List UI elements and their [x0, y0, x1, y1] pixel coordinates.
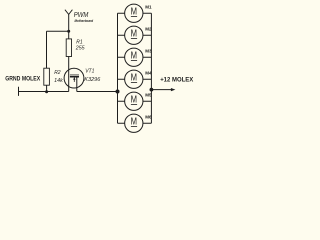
motor M2	[125, 26, 143, 44]
wire motor M3 to right bus	[143, 56, 152, 58]
svg-text:R1: R1	[76, 39, 83, 45]
svg-text:M: M	[131, 94, 137, 105]
transistor VT1 channel bar	[70, 76, 79, 78]
node junction R2/ground	[45, 90, 48, 93]
wire left bus to motor M3	[118, 56, 125, 58]
svg-text:M: M	[131, 6, 137, 17]
wire left bus to motor M4	[118, 78, 125, 80]
svg-text:M: M	[131, 72, 137, 83]
svg-text:255: 255	[75, 46, 85, 52]
resistor R2	[44, 68, 50, 85]
svg-text:M4: M4	[145, 70, 152, 75]
svg-text:M1: M1	[145, 4, 152, 9]
svg-text:R2: R2	[54, 70, 61, 76]
wire left motor bus	[117, 13, 119, 123]
arrowhead +12 MOLEX	[171, 88, 176, 91]
svg-text:M2: M2	[145, 26, 152, 31]
node junction right bus / +12	[150, 88, 154, 92]
motor M6	[125, 114, 143, 132]
wire left bus to motor M6	[118, 122, 125, 124]
motor M5	[125, 92, 143, 110]
svg-text:GRND MOLEX: GRND MOLEX	[5, 75, 41, 82]
svg-text:PWM: PWM	[74, 12, 89, 19]
wire left bus to motor M2	[118, 34, 125, 36]
svg-text:K3296: K3296	[84, 77, 100, 83]
svg-text:+12 MOLEX: +12 MOLEX	[160, 76, 194, 83]
wire right motor bus	[150, 13, 152, 123]
transistor VT1 source stem with arrow	[73, 78, 75, 82]
svg-text:14k: 14k	[54, 78, 63, 84]
motor M3	[125, 48, 143, 66]
node junction left bus / drain	[116, 90, 120, 94]
wire R2 bottom to ground rail	[46, 85, 48, 92]
node junction PWM/R1/R2	[67, 30, 70, 33]
connector PWM (fork symbol)	[65, 10, 73, 15]
wire down to R2	[46, 31, 48, 69]
transistor VT1 gate bar	[70, 74, 79, 76]
connector GRND MOLEX pin tick	[18, 87, 20, 96]
wire motor M2 to right bus	[143, 34, 152, 36]
transistor VT1 circle	[64, 68, 84, 88]
wire motor M5 to right bus	[143, 100, 152, 102]
svg-text:M5: M5	[145, 92, 152, 97]
svg-text:M: M	[131, 50, 137, 61]
wire PWM stem down through R1 and transistor to ground end	[68, 14, 70, 91]
wire +12 MOLEX arrow line	[151, 89, 171, 91]
wire motor M6 to right bus	[143, 122, 152, 124]
wire drain rail to left bus junction	[77, 91, 118, 93]
svg-text:M: M	[131, 116, 137, 127]
wire left bus to motor M5	[118, 100, 125, 102]
wire ground rail GRND MOLEX	[19, 91, 69, 93]
wire motor M1 to right bus	[143, 12, 152, 14]
wire left bus to motor M1	[118, 12, 125, 14]
wire motor M4 to right bus	[143, 78, 152, 80]
wire node to R2 branch	[47, 30, 69, 32]
wire drain stub to motor bus	[76, 77, 78, 92]
resistor R1	[66, 39, 71, 57]
svg-text:M: M	[131, 28, 137, 39]
motor M4	[125, 70, 143, 88]
motor M1	[125, 4, 143, 22]
svg-text:M3: M3	[145, 48, 152, 53]
svg-text:Motherboard: Motherboard	[75, 19, 94, 23]
svg-text:M6: M6	[145, 114, 152, 119]
svg-text:VT1: VT1	[85, 68, 94, 74]
